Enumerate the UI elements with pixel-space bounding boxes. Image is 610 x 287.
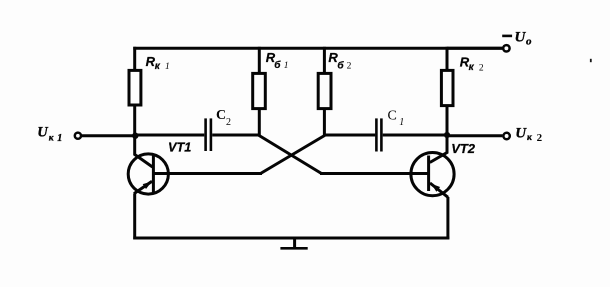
ground symbol stub <box>293 238 296 247</box>
ground symbol bar <box>280 247 307 250</box>
terminal -Uo <box>503 45 509 51</box>
svg-text:б: б <box>337 59 344 71</box>
label Uk2 <box>515 126 542 145</box>
resistor RB1 <box>253 73 266 108</box>
wire VT2 collector lead <box>430 134 447 163</box>
wire top rail to terminal Uo <box>447 47 502 50</box>
stray ink mark near right edge <box>590 59 592 62</box>
wire bottom ground rail <box>133 237 449 240</box>
wire cross-coupling B to VT2 base (diagonal) <box>258 135 321 174</box>
transistor VT2 body circle <box>411 153 454 196</box>
svg-text:o: o <box>526 36 532 48</box>
label RK1 <box>146 54 170 72</box>
svg-text:2: 2 <box>347 61 352 71</box>
transistor VT1 emitter with arrow <box>134 181 152 193</box>
svg-text:C: C <box>216 108 226 123</box>
svg-text:U: U <box>515 30 527 46</box>
wire Rk2 top lead <box>446 47 449 70</box>
transistor VT1 base bar <box>152 155 155 193</box>
wire VT2 emitter lead down <box>446 197 449 239</box>
wire node A to C2 left plate <box>135 134 204 137</box>
label RB2 <box>328 50 351 72</box>
wire Rk1 bottom lead <box>133 107 136 137</box>
label C1 <box>388 109 405 129</box>
svg-text:2: 2 <box>537 132 543 144</box>
svg-text:VT1: VT1 <box>168 140 191 154</box>
wire Rk2 bottom lead to node D <box>446 107 449 136</box>
wire C2 right plate to node B <box>212 134 259 137</box>
resistor RK2 <box>441 70 453 105</box>
resistor RB2 <box>318 73 331 108</box>
transistor VT2 emitter with arrow <box>430 183 448 197</box>
svg-text:VT2: VT2 <box>451 141 476 156</box>
wire Rb1 bottom lead to node B <box>258 110 261 136</box>
svg-text:1: 1 <box>57 133 62 144</box>
label C2 <box>216 108 231 128</box>
label VT2 <box>451 141 476 156</box>
wire VT1 collector lead <box>135 134 153 167</box>
wire node D to terminal Uk2 <box>447 134 502 137</box>
transistor VT1 body circle <box>128 154 168 194</box>
wire Rk1 top lead <box>133 47 136 70</box>
capacitor C2 <box>206 118 211 151</box>
capacitor C1 <box>376 118 381 151</box>
svg-text:1: 1 <box>399 117 404 128</box>
wire Uk1 terminal to node A <box>81 134 135 137</box>
label RB1 <box>266 50 289 71</box>
svg-text:2: 2 <box>479 63 484 73</box>
svg-text:б: б <box>274 59 281 71</box>
wire cross-coupling C to VT1 base (diagonal) <box>261 135 326 174</box>
label VT1 <box>168 140 191 154</box>
wire Rb1 top lead <box>258 47 261 73</box>
transistor VT2 base bar <box>427 156 430 192</box>
wire VT1 base lead horizontal <box>153 172 262 175</box>
svg-text:1: 1 <box>165 62 170 72</box>
wire Rb2 top lead <box>323 47 326 73</box>
label minus sign of Uo <box>502 35 512 38</box>
wire top supply rail <box>133 47 502 50</box>
wire VT1 emitter lead down <box>133 193 136 239</box>
svg-text:2: 2 <box>226 117 231 128</box>
wire Rb2 bottom lead to node C <box>323 110 326 136</box>
node A junction dot <box>132 133 138 139</box>
node D junction dot <box>444 132 450 138</box>
svg-text:1: 1 <box>284 61 289 71</box>
wire VT2 base lead horizontal <box>320 172 429 175</box>
terminal Uk1 <box>75 133 81 139</box>
svg-text:U: U <box>515 126 527 142</box>
terminal Uk2 <box>503 133 509 139</box>
label RK2 <box>460 55 484 74</box>
wire C1 right plate to node D <box>383 134 447 137</box>
svg-text:U: U <box>37 125 49 141</box>
resistor RK1 <box>129 70 141 105</box>
svg-text:C: C <box>388 109 397 124</box>
wire node C to C1 left plate <box>324 134 375 137</box>
label Uo <box>515 30 533 48</box>
label Uk1 <box>37 125 62 145</box>
